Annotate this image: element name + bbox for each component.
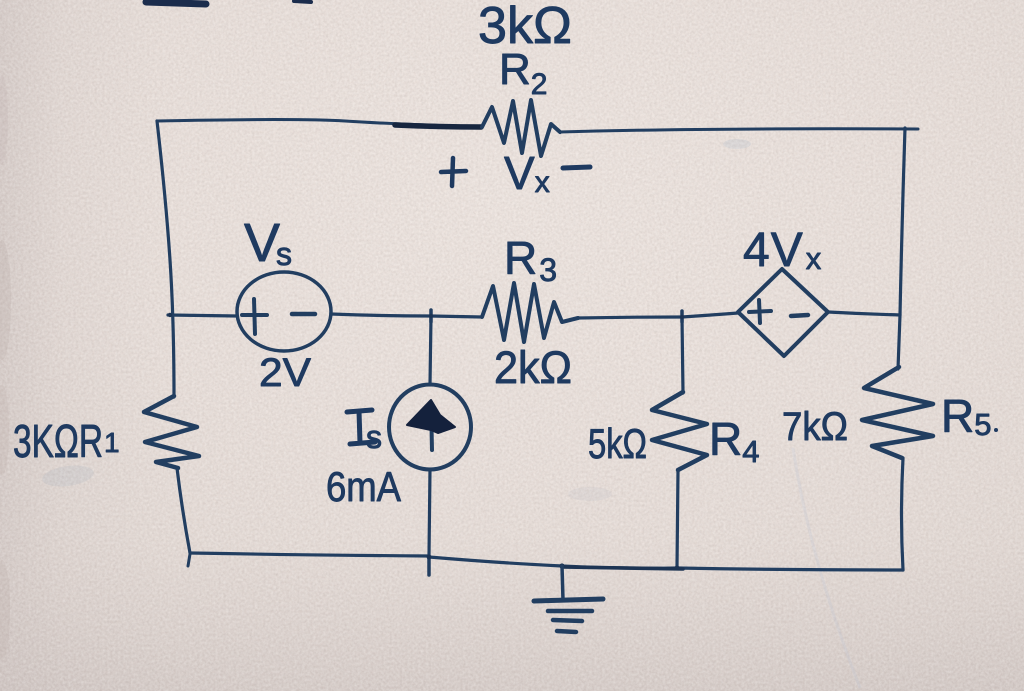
svg-text:s: s: [366, 419, 382, 455]
wire: node B to diamond: [682, 313, 738, 317]
wire: R1 to bottom-left corner: [177, 468, 190, 553]
wire: R4 to bottom rail: [677, 470, 678, 568]
svg-text:2kΩ: 2kΩ: [494, 342, 572, 393]
ground bar 3: [553, 620, 582, 621]
junction knot at ground tap: [559, 563, 564, 568]
wire: left vertical (top corner down to R1): [157, 121, 174, 397]
wire: bottom rail left segment: [190, 553, 429, 556]
ground stem: [562, 566, 563, 600]
wire overdraw: rail between ground tap and R4: [562, 567, 683, 569]
stray ink mark top edge small: [294, 1, 311, 2]
svg-text:7kΩ: 7kΩ: [782, 405, 848, 449]
left edge shading patch 4: [0, 75, 8, 165]
wire: bottom rail middle segment: [429, 557, 677, 568]
svg-text:2V: 2V: [259, 351, 311, 395]
ground bar 2: [548, 609, 592, 614]
wire: Vs to node A: [331, 314, 431, 316]
diamond plus sign: [749, 300, 771, 323]
Is arrowhead: [407, 400, 455, 433]
ground bar 4: [557, 631, 576, 632]
resistor R3: [482, 283, 578, 342]
node A junction tick: [429, 310, 433, 322]
svg-text:1: 1: [104, 427, 120, 458]
wire: right vertical middle rail to R5: [898, 315, 900, 369]
node Vx polarity label + Vx -: [441, 158, 466, 186]
wire: diamond to right vertical: [828, 312, 900, 315]
faint ink smudge below ground rail: [568, 487, 612, 501]
svg-text:6mA: 6mA: [326, 463, 401, 510]
wire: bottom rail right segment: [677, 568, 903, 570]
wire: thick dark segment left of R2: [395, 125, 481, 127]
Is arrow stem: [431, 404, 432, 450]
wire: Is to bottom rail: [429, 469, 430, 556]
wire: node B down to R4: [682, 317, 683, 393]
resistor R2: [482, 100, 560, 156]
junction knot at node B: [680, 315, 684, 319]
stray ink mark top edge left: [146, 2, 206, 4]
svg-text:5kΩ: 5kΩ: [588, 420, 647, 467]
junction knot at Is bottom: [427, 555, 432, 560]
faint ink smudge near top right: [723, 139, 751, 149]
current source Is circle: [389, 385, 471, 470]
resistor R1: [144, 396, 199, 468]
wire: R5 to bottom-right corner: [902, 458, 904, 570]
node B junction: [680, 311, 684, 322]
faint scratch streak bottom right: [793, 448, 860, 688]
left edge shading patch 3: [0, 560, 10, 660]
voltage source Vs circle: [237, 272, 331, 351]
wire: node A down to Is: [430, 316, 431, 385]
faint ink smudge below R1 label: [41, 462, 95, 489]
junction knot at node A: [429, 314, 433, 318]
diamond minus sign: [791, 315, 808, 316]
left edge shading patch 1: [0, 240, 11, 360]
left edge shading patch 2: [0, 385, 9, 475]
resistor R4: [652, 392, 707, 470]
wire: R3 to node B: [578, 317, 682, 318]
resistor R5: [862, 367, 933, 458]
Vs minus sign: [292, 312, 315, 317]
wire: node A to R3: [431, 316, 482, 317]
wire: right vertical top (corner down to middle rail): [900, 128, 905, 315]
junction knot at R4 bottom: [675, 566, 680, 571]
wire: middle rail, left vertical to Vs: [168, 315, 237, 316]
Vs plus sign: [242, 299, 267, 334]
wire: top-left corner to resistor R2: [157, 120, 482, 128]
label Is: [347, 410, 375, 444]
corner overshoot tick bottom-left: [188, 554, 190, 566]
wire: R2 to top-right corner: [560, 129, 918, 132]
dependent source 4Vx diamond: [738, 269, 828, 356]
junction tick below bottom rail at Is: [427, 556, 431, 575]
svg-text:3KΩR: 3KΩR: [13, 415, 103, 467]
junction knot middle rail left end: [168, 313, 172, 317]
ground bar 1: [534, 599, 603, 601]
